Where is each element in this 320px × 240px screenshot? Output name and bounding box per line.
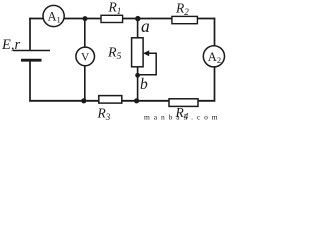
- svg-text:a: a: [141, 16, 150, 36]
- rheostat wiper wire: [138, 53, 156, 75]
- node junction voltmeter bottom: [81, 98, 86, 103]
- svg-text:E,r: E,r: [1, 37, 20, 53]
- wire right rail: [214, 18, 216, 102]
- voltmeter V: [76, 47, 95, 66]
- wire node-a branch upper: [137, 19, 139, 39]
- node junction b bottom rail: [134, 98, 139, 103]
- ammeter A1: [43, 5, 64, 26]
- ammeter A2: [203, 46, 224, 67]
- wire bottom rail: [29, 100, 215, 102]
- node a junction dot: [135, 16, 140, 21]
- node b junction dot: [135, 73, 140, 78]
- wire voltmeter branch: [84, 19, 86, 101]
- battery E,r short thick plate: [21, 59, 42, 62]
- rheostat R5 box: [132, 38, 144, 67]
- wire node-b branch lower: [137, 67, 139, 101]
- rheostat wiper arrowhead: [143, 50, 149, 56]
- resistor R1: [101, 0, 123, 23]
- wire left rail lower: [29, 60, 31, 101]
- battery E,r long plate: [13, 50, 50, 52]
- svg-text:b: b: [140, 76, 148, 93]
- resistor R4: [169, 99, 198, 122]
- node junction after A1: [83, 16, 88, 21]
- resistor R3: [97, 96, 122, 122]
- resistor R2: [172, 0, 198, 23]
- svg-text:V: V: [81, 52, 90, 64]
- wire top rail: [29, 18, 215, 20]
- wire left rail upper: [29, 18, 31, 51]
